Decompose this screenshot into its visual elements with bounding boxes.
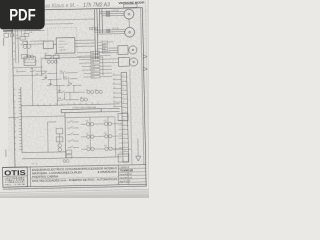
wire upper cross a: [43, 19, 94, 20]
contactor feeder right: [114, 117, 117, 157]
box K0 tiny: [24, 33, 29, 36]
title block bottom rule: [3, 184, 147, 187]
ground symbol: [136, 156, 141, 161]
contact row 6: [57, 98, 79, 100]
contactor K3: [104, 122, 111, 126]
connector tab right 2: [143, 67, 147, 71]
contact row 1: [41, 71, 77, 74]
wire chain to bus mid: [21, 115, 65, 118]
brake tag 0: [102, 41, 107, 43]
contact row 5: [57, 90, 85, 92]
fuse F2: [106, 13, 109, 14]
scanner background right edge: [147, 0, 149, 198]
wire below box K1: [26, 40, 28, 44]
wire row left y74: [14, 74, 44, 77]
strip left stubs lower: [118, 121, 122, 153]
branch contact 3: [67, 133, 79, 135]
terminal strip X1 rows: [121, 77, 128, 156]
drawing frame top border: [12, 8, 143, 11]
contact row 3: [47, 83, 82, 86]
wire U2 to U1: [53, 43, 56, 45]
relay cluster box R1: [45, 55, 51, 59]
door motor M4 hub: [133, 61, 135, 63]
controller module U1: [56, 37, 75, 53]
contactor K6: [87, 147, 94, 151]
aux blob b: [66, 160, 69, 163]
aux box right of bus 2: [66, 155, 72, 158]
branch contact 1: [67, 120, 79, 122]
OTIS logo box: [3, 167, 28, 187]
svg-text:PDF: PDF: [9, 6, 36, 25]
hanging fuse 3: [34, 28, 36, 31]
long wire mid: [21, 104, 119, 106]
OTIS address lines: [5, 176, 27, 186]
motor M2: [125, 27, 135, 37]
brake tag 1: [102, 44, 107, 46]
wire U1 to bus: [75, 40, 95, 46]
aux relay box B: [56, 137, 63, 142]
contactor K4: [87, 135, 94, 139]
top bus dark segment: [3, 30, 13, 32]
relay box left big: [24, 57, 36, 66]
coil pair row 5b: [95, 90, 102, 93]
drawing frame right border: [142, 8, 146, 186]
contactor column 1 feeder: [89, 117, 92, 149]
code table inner divider: [127, 172, 129, 184]
contact row 2: [42, 77, 78, 80]
box K1 top-left: [20, 36, 25, 40]
title block top rule: [2, 165, 146, 168]
motor M2 hub: [129, 31, 131, 33]
wire M1 drop: [128, 19, 130, 28]
branch wire left of cluster: [46, 122, 49, 152]
wire transformer to mid rail: [31, 67, 34, 105]
top border tick marks: [20, 8, 115, 11]
terminal chain labels: [13, 89, 16, 151]
wire pair to right: [30, 41, 45, 44]
hanging fuse 1: [26, 28, 28, 31]
door motor M4: [129, 58, 137, 66]
aux box right of bus 1: [66, 150, 72, 154]
cable tag stack: [91, 51, 101, 78]
coil blob a: [27, 55, 30, 58]
code table rules: [118, 168, 146, 182]
fuse F4: [107, 29, 110, 30]
brake rectifier B1: [118, 46, 128, 55]
paper edge line right: [145, 0, 149, 190]
brake tag 3: [102, 51, 107, 53]
supply bus verticals: [94, 9, 103, 60]
coil blob b: [30, 55, 33, 58]
brake coil M3: [129, 46, 137, 54]
left tiny labels cluster: [16, 31, 39, 76]
branch contact 2: [67, 126, 79, 128]
branch contact 4: [67, 139, 79, 141]
mid wire terminal ticks: [38, 102, 98, 105]
breaker stubs: [6, 31, 25, 37]
hanging fuse 4: [38, 28, 40, 31]
title block mid rule: [30, 177, 118, 179]
scanner background bottom deep edge: [0, 194, 149, 198]
transformer T1 second winding: [27, 44, 31, 48]
branch wire horizontal: [47, 121, 56, 123]
contactor row wires: [81, 124, 105, 149]
code table texts: [119, 167, 134, 183]
fold mark upper left margin: [3, 38, 5, 46]
aux blob a: [63, 160, 66, 163]
ladder left vertical: [40, 58, 42, 75]
contactor labels: [85, 120, 106, 147]
wire second vertical: [17, 10, 18, 63]
contactor K7: [105, 147, 112, 151]
junction box X3: [118, 154, 129, 162]
wire left inner vertical: [15, 10, 16, 63]
wire three-phase to motor M2: [95, 30, 125, 35]
aux coil a: [58, 144, 62, 148]
safety bus extension: [101, 108, 120, 111]
wire near ground: [130, 69, 132, 165]
wire upper cross b: [43, 23, 73, 26]
hanging fuse 2: [30, 28, 32, 31]
scan speckle in drawing area: [8, 6, 147, 191]
contactor column 2 feeder: [107, 117, 110, 149]
transformer T1: [23, 44, 27, 48]
terminal chain vertical: [21, 87, 22, 153]
brake coil M3 hub: [132, 49, 134, 51]
relay box left big rows: [24, 60, 36, 63]
cable tag wires left: [77, 52, 91, 77]
bundle tags M2 branch: [89, 27, 97, 29]
chain to bus wire: [22, 151, 66, 154]
ladder right vertical: [102, 57, 104, 75]
terminal strip X1: [121, 72, 128, 162]
aux relay box A: [56, 128, 63, 134]
ladder mid vertical: [55, 58, 58, 105]
rung rail: [65, 117, 114, 118]
drawing frame right inner border: [141, 8, 144, 165]
coil blob box: [22, 54, 27, 59]
code table divider: [117, 165, 119, 185]
breaker box under bus A: [4, 33, 9, 37]
U1 internal marks: [59, 41, 68, 47]
drawing frame bottom border: [3, 186, 147, 189]
aux vertical wire: [58, 134, 60, 144]
coil pair row 6: [80, 98, 87, 101]
wire to brake rectifier: [108, 48, 118, 53]
wire hline into cluster: [15, 37, 20, 39]
stub wire left margin: [8, 116, 18, 118]
fuse F3: [106, 15, 109, 16]
contactor K2: [86, 122, 93, 126]
wire three-phase to motor M1: [99, 11, 124, 16]
connector tab right 1: [143, 55, 147, 59]
brake tag 0 wire: [98, 41, 114, 43]
left border tick labels: [12, 15, 15, 59]
version stamp box: [124, 4, 138, 8]
contactor K5: [105, 135, 112, 139]
safety bus bar: [61, 109, 101, 113]
aux coil b: [58, 148, 62, 152]
junction box X2: [118, 113, 128, 120]
paper background: [0, 0, 149, 198]
bottom rail: [22, 157, 121, 159]
drawing frame left border: [12, 10, 15, 167]
box K1b mid: [23, 41, 28, 44]
terminal strip numbers: [122, 75, 125, 152]
cable tag wires right: [100, 52, 119, 77]
wire labels into strip: [113, 74, 116, 108]
controller enclosure dashed: [48, 27, 78, 55]
fuse F5: [107, 31, 110, 32]
ladder top rail: [41, 57, 102, 58]
motor M1 hub: [128, 13, 130, 15]
wire to ground: [137, 139, 139, 156]
brake tag feed wires: [98, 45, 103, 52]
branch contact 5: [67, 146, 79, 148]
ladder droppers: [46, 73, 74, 101]
wire transformer down: [26, 48, 28, 56]
relay cluster box R2: [53, 55, 59, 59]
wire row left y66.5: [13, 67, 43, 72]
cable tag texts: [91, 52, 95, 79]
title block divider: [29, 167, 31, 187]
breaker box under bus B: [11, 33, 14, 36]
paper bottom edge line: [0, 189, 149, 192]
terminal chain ticks: [18, 90, 22, 150]
coil pair row 5a: [87, 90, 94, 93]
fuse F1: [106, 11, 109, 12]
contact row labels band 1: [43, 52, 97, 100]
hline above title: [113, 148, 131, 150]
relay cluster coils: [47, 60, 57, 63]
top bus hline: [3, 29, 44, 32]
main vertical bus: [64, 113, 67, 158]
door operator box B2: [118, 57, 129, 66]
fold mark lower left margin: [5, 149, 7, 156]
paper grain texture: [0, 0, 149, 198]
OTIS logo underline: [3, 175, 28, 178]
wires into terminal strip: [113, 75, 122, 107]
interface box U2: [43, 41, 53, 49]
motor M1: [124, 9, 134, 19]
wires contactors to strip: [112, 124, 123, 149]
contact left row: [30, 69, 44, 71]
scanner background bottom edge: [0, 190, 149, 198]
brake tag 2: [102, 47, 107, 49]
PDF badge: [0, 0, 45, 29]
